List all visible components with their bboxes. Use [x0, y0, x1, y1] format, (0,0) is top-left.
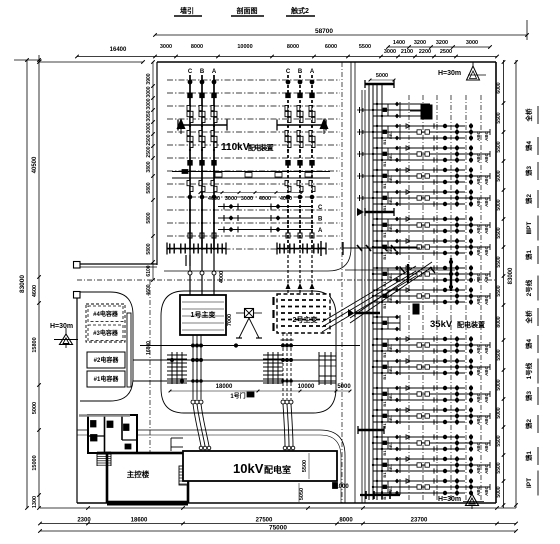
- dim 75000 bottom overall: [40, 530, 516, 532]
- svg-text:C: C: [286, 69, 291, 75]
- 110kV bay dims 4000 3000 3000 4000 4000: [200, 192, 302, 194]
- gate post square B: [74, 292, 81, 299]
- svg-text:ABC: ABC: [484, 485, 489, 495]
- svg-text:ABC: ABC: [484, 245, 489, 255]
- svg-text:馈4: 馈4: [524, 141, 533, 152]
- svg-text:ABC: ABC: [476, 414, 481, 424]
- equipment row y270 extension: [345, 269, 455, 271]
- svg-text:B: B: [298, 69, 303, 75]
- svg-text:主控楼: 主控楼: [127, 469, 150, 479]
- 35kV busbar top with 5000 dim: [370, 79, 394, 81]
- road bottom right loop: [320, 430, 345, 503]
- svg-text:3200: 3200: [414, 40, 426, 46]
- svg-text:35kV: 35kV: [430, 319, 453, 330]
- dim left inner chain x155: [152, 62, 154, 280]
- feeder comb cluster B: [267, 352, 269, 384]
- cable curves T2 to room: [283, 404, 285, 446]
- 110kV busbar group1: [178, 124, 227, 126]
- dim bottom chain line1: [40, 507, 516, 509]
- svg-text:3000: 3000: [146, 98, 152, 109]
- diagonal jumper lines T2 to 35kV bus: [322, 266, 416, 322]
- svg-text:ⅢPT: ⅢPT: [525, 222, 533, 235]
- svg-text:3200: 3200: [436, 40, 448, 46]
- svg-text:BB1: BB1: [388, 365, 393, 374]
- svg-text:B1: B1: [382, 352, 387, 358]
- svg-text:B1: B1: [382, 374, 387, 380]
- svg-text:1号门: 1号门: [230, 392, 245, 400]
- svg-text:3900: 3900: [146, 73, 152, 84]
- hall bottom wall reinforcement: [107, 504, 188, 506]
- svg-text:16400: 16400: [110, 47, 127, 53]
- gate post square A: [74, 262, 81, 269]
- 35kV bottom bus cluster: [360, 494, 400, 496]
- svg-text:3050: 3050: [146, 110, 152, 121]
- T1 LV cable leads: [192, 335, 194, 399]
- 10kV bus lines: [140, 345, 360, 347]
- T1 HV feeds from 110kV yard: [189, 250, 191, 295]
- svg-text:4000: 4000: [280, 196, 292, 202]
- svg-text:3000: 3000: [241, 196, 253, 202]
- svg-text:ⅠPT: ⅠPT: [525, 478, 533, 488]
- svg-text:8000: 8000: [287, 44, 299, 50]
- svg-text:5000: 5000: [496, 199, 502, 210]
- cable curves T1 to room: [193, 404, 201, 446]
- svg-text:A: A: [212, 69, 217, 75]
- svg-text:ABC: ABC: [484, 365, 489, 375]
- 110kV cable trench steps: [172, 171, 330, 173]
- 110kV conductor-row crossing dots: [189, 105, 191, 107]
- svg-text:配电装置: 配电装置: [457, 320, 485, 329]
- svg-text:墙引: 墙引: [180, 6, 194, 15]
- svg-text:15000: 15000: [32, 455, 38, 470]
- svg-text:2100: 2100: [401, 49, 413, 55]
- svg-text:B1: B1: [382, 472, 387, 478]
- svg-text:1000: 1000: [335, 484, 349, 490]
- svg-text:ABC: ABC: [476, 272, 481, 282]
- bus junction dots: [192, 344, 195, 347]
- 110kV busbar group2: [277, 124, 326, 126]
- svg-text:5500: 5500: [496, 227, 502, 238]
- svg-text:BB1: BB1: [388, 441, 393, 450]
- svg-text:5500: 5500: [496, 435, 502, 446]
- svg-text:ABC: ABC: [484, 174, 489, 184]
- svg-text:BB1: BB1: [388, 130, 393, 139]
- transformer T1 box: [180, 295, 226, 335]
- road centerline NS dash-dot x342: [341, 62, 343, 503]
- svg-text:ABC: ABC: [476, 392, 481, 402]
- 110kV group1 phase conductors: [189, 75, 191, 250]
- radiator V trestle: [239, 318, 249, 338]
- svg-text:6000: 6000: [325, 44, 337, 50]
- svg-text:4000: 4000: [219, 271, 225, 283]
- 35kV bay centerlines dash-dot: [408, 95, 410, 500]
- svg-text:H=30m: H=30m: [50, 323, 73, 330]
- svg-text:BB1: BB1: [388, 196, 393, 205]
- 110kV outgoing gantry row group1: [167, 248, 226, 250]
- svg-text:H=30m: H=30m: [438, 70, 461, 77]
- 110kV group2 phase conductors dashed: [287, 75, 289, 250]
- building door marks: [91, 421, 97, 428]
- svg-text:8000: 8000: [496, 316, 502, 327]
- svg-text:4600: 4600: [146, 284, 152, 295]
- svg-text:3000: 3000: [146, 122, 152, 133]
- svg-text:ABC: ABC: [484, 152, 489, 162]
- svg-text:83000: 83000: [508, 267, 514, 284]
- svg-text:B1: B1: [382, 254, 387, 260]
- svg-text:4000: 4000: [259, 196, 271, 202]
- 110kV bay dash-dot rows: [167, 79, 340, 81]
- svg-text:4000: 4000: [208, 196, 220, 202]
- svg-text:馈1: 馈1: [524, 451, 533, 462]
- svg-text:ABC: ABC: [476, 441, 481, 451]
- svg-text:ABC: ABC: [476, 365, 481, 375]
- svg-text:B1: B1: [382, 139, 387, 145]
- T2 LV cable leads dashed: [282, 333, 284, 399]
- svg-text:馈2: 馈2: [524, 419, 533, 430]
- svg-text:3000: 3000: [466, 40, 478, 46]
- svg-text:B: B: [318, 217, 323, 223]
- svg-text:A: A: [310, 69, 315, 75]
- svg-text:ABC: ABC: [476, 294, 481, 304]
- 35kV busbar mid: [365, 211, 394, 214]
- svg-text:3000: 3000: [146, 86, 152, 97]
- svg-text:7000: 7000: [227, 314, 233, 326]
- flange plate right: [320, 241, 322, 256]
- road edge NS x351 with corner: [164, 62, 351, 271]
- svg-text:5800: 5800: [146, 243, 152, 254]
- svg-text:#4电容器: #4电容器: [93, 310, 119, 318]
- svg-text:18600: 18600: [131, 518, 148, 524]
- equipment row y248 extension: [340, 247, 420, 249]
- dim bottom chain line2: [40, 523, 516, 525]
- T2 bushing bars left edge: [272, 297, 274, 305]
- road edge under 110kV y258: [164, 257, 330, 259]
- svg-text:5000: 5000: [496, 407, 502, 418]
- svg-text:58700: 58700: [315, 28, 333, 35]
- svg-text:5500: 5500: [496, 349, 502, 360]
- road edge NS x355: [354, 62, 356, 503]
- stairs upper: [97, 451, 111, 453]
- fence right: [495, 62, 497, 503]
- main building gray roof edge: [79, 414, 130, 416]
- svg-text:BB1: BB1: [388, 174, 393, 183]
- T1 cable end circles: [191, 400, 195, 404]
- svg-text:A: A: [318, 228, 323, 234]
- 35kV feeder bays: [373, 103, 430, 105]
- dim right chain x505: [503, 60, 505, 508]
- svg-text:2号线: 2号线: [524, 279, 533, 296]
- svg-text:5000: 5000: [376, 73, 388, 79]
- equipment row crossing left yard: [133, 359, 164, 361]
- svg-text:5000: 5000: [496, 486, 502, 497]
- svg-text:B1: B1: [382, 205, 387, 211]
- transformer yard road loop: [161, 291, 336, 413]
- svg-text:B1: B1: [382, 183, 387, 189]
- svg-text:18000: 18000: [216, 384, 233, 390]
- svg-text:B1: B1: [382, 401, 387, 407]
- svg-text:3000: 3000: [384, 49, 396, 55]
- svg-text:ABC: ABC: [484, 130, 489, 140]
- svg-text:75000: 75000: [269, 525, 287, 532]
- svg-text:馈2: 馈2: [524, 194, 533, 205]
- 35kV busbar mid2: [355, 312, 380, 315]
- 110kV jumper rows with CBA labels: [218, 206, 313, 208]
- svg-text:BB1: BB1: [388, 463, 393, 472]
- svg-text:配电室: 配电室: [264, 464, 291, 475]
- svg-text:ABC: ABC: [484, 441, 489, 451]
- svg-text:2号主变: 2号主变: [293, 315, 318, 324]
- svg-text:BB1: BB1: [388, 223, 393, 232]
- fence left upper: [156, 62, 158, 265]
- T2 HV feeds dashed from 110kV yard: [287, 250, 289, 294]
- radiator box with X: [245, 309, 254, 318]
- flange plate at road: [342, 242, 344, 255]
- svg-text:8000: 8000: [339, 518, 353, 524]
- svg-text:15800: 15800: [32, 337, 38, 352]
- svg-text:全桥: 全桥: [524, 108, 533, 123]
- svg-text:触式2: 触式2: [290, 6, 309, 15]
- svg-text:配电装置: 配电装置: [248, 143, 274, 152]
- dim 83000 left overall: [26, 60, 28, 508]
- svg-text:5500: 5500: [496, 256, 502, 267]
- svg-text:C: C: [188, 69, 193, 75]
- svg-text:5500: 5500: [496, 141, 502, 152]
- svg-text:全桥: 全桥: [524, 310, 533, 325]
- svg-text:B: B: [200, 69, 205, 75]
- svg-text:B1: B1: [382, 161, 387, 167]
- svg-text:10kV: 10kV: [233, 461, 264, 476]
- 35kV black cluster: [413, 304, 419, 314]
- capacitor yard road loop: [80, 292, 133, 401]
- svg-text:5500: 5500: [359, 44, 371, 50]
- capacitor banks #3#4 dashed outer: [86, 304, 125, 342]
- svg-text:ABC: ABC: [476, 223, 481, 233]
- svg-text:5050: 5050: [299, 488, 305, 500]
- svg-text:10000: 10000: [298, 384, 315, 390]
- svg-text:23700: 23700: [411, 518, 428, 524]
- svg-text:5500: 5500: [302, 460, 308, 472]
- svg-text:ABC: ABC: [484, 196, 489, 206]
- svg-text:83000: 83000: [19, 275, 26, 293]
- svg-text:5500: 5500: [496, 462, 502, 473]
- svg-text:6000: 6000: [496, 82, 502, 93]
- svg-text:1300: 1300: [32, 496, 38, 508]
- svg-text:3000: 3000: [160, 44, 172, 50]
- road lines above 10kV room: [77, 429, 320, 431]
- svg-text:5500: 5500: [496, 112, 502, 123]
- T2 cable end circles: [281, 400, 285, 404]
- svg-text:5800: 5800: [146, 212, 152, 223]
- stairs right in hall: [179, 466, 188, 485]
- svg-text:BB1: BB1: [388, 414, 393, 423]
- capacitor #2 box: [87, 352, 125, 368]
- svg-text:5500: 5500: [496, 285, 502, 296]
- 10kV room dims: [308, 453, 310, 479]
- svg-text:ABC: ABC: [484, 414, 489, 424]
- svg-text:110kV: 110kV: [221, 142, 250, 153]
- svg-text:ABC: ABC: [476, 152, 481, 162]
- svg-text:B1: B1: [382, 450, 387, 456]
- svg-text:2500: 2500: [146, 146, 152, 157]
- capacitor trench slim rect: [127, 313, 131, 387]
- 35kV thick bus stubs: [450, 258, 452, 291]
- capacitor #3 box: [88, 325, 123, 341]
- dim left chain 40500/4600/15800/5000/15000/1300: [38, 55, 40, 508]
- svg-text:剖面图: 剖面图: [237, 6, 258, 15]
- lightning rod arrow right: [320, 118, 329, 129]
- svg-text:B1: B1: [382, 232, 387, 238]
- svg-text:馈3: 馈3: [524, 166, 533, 177]
- gate jog line: [80, 263, 157, 265]
- 35kV bus vertical conductors: [368, 84, 370, 500]
- road centerline NS dash-dot x150: [149, 280, 151, 503]
- svg-text:ABC: ABC: [484, 223, 489, 233]
- 35kV yard fence lines x362 x365: [361, 90, 363, 503]
- fence left lower: [76, 298, 78, 503]
- 35kV busbar low: [358, 429, 384, 432]
- main building lower hall: [107, 453, 188, 502]
- dim 83000 right overall: [515, 60, 517, 508]
- svg-text:10000: 10000: [237, 44, 252, 50]
- svg-text:ABC: ABC: [476, 174, 481, 184]
- dim chain top right upper 1400 3200 3200 3000: [388, 46, 490, 48]
- dim 58700 overall top: [155, 34, 527, 36]
- svg-text:5000: 5000: [496, 170, 502, 181]
- svg-text:馈4: 馈4: [524, 339, 533, 350]
- svg-text:5800: 5800: [146, 182, 152, 193]
- svg-text:5000: 5000: [32, 402, 38, 414]
- capacitor #1 box: [87, 371, 125, 387]
- dim chain top main: [77, 56, 497, 58]
- ladder symbol right: [318, 352, 320, 385]
- svg-text:40500: 40500: [32, 156, 38, 173]
- svg-text:5000: 5000: [496, 379, 502, 390]
- svg-text:ABC: ABC: [476, 485, 481, 495]
- svg-text:ABC: ABC: [476, 463, 481, 473]
- dim 16400: [39, 61, 143, 63]
- svg-text:#2电容器: #2电容器: [94, 356, 120, 364]
- capacitor #4 box: [88, 306, 123, 322]
- yard dim line 18000/10000/5000: [170, 390, 350, 392]
- svg-text:B1: B1: [382, 303, 387, 309]
- gate posts near fence upper: [185, 255, 187, 266]
- svg-text:27500: 27500: [256, 518, 273, 524]
- svg-text:ABC: ABC: [476, 196, 481, 206]
- svg-text:5000: 5000: [337, 384, 351, 390]
- svg-text:H=30m: H=30m: [438, 496, 461, 503]
- 110kV outgoing gantry row group2: [277, 248, 326, 250]
- svg-text:馈3: 馈3: [524, 391, 533, 402]
- svg-text:#1电容器: #1电容器: [94, 375, 120, 383]
- svg-text:1400: 1400: [393, 40, 405, 46]
- svg-text:ABC: ABC: [476, 130, 481, 140]
- svg-text:BB1: BB1: [388, 152, 393, 161]
- feeder comb cluster A: [171, 352, 173, 384]
- svg-text:16800: 16800: [146, 341, 152, 355]
- svg-text:BB1: BB1: [388, 343, 393, 352]
- svg-text:ABC: ABC: [484, 294, 489, 304]
- svg-text:ABC: ABC: [484, 343, 489, 353]
- svg-text:1号线: 1号线: [524, 362, 533, 379]
- road centerline EW dash-dot: [77, 279, 496, 281]
- svg-text:3800: 3800: [146, 161, 152, 172]
- 35kV station transformer black box: [421, 105, 432, 119]
- svg-text:1号主变: 1号主变: [191, 310, 216, 319]
- svg-text:3000: 3000: [225, 196, 237, 202]
- svg-text:2500: 2500: [440, 49, 452, 55]
- 10kV switchgear room: [183, 451, 337, 481]
- 110kV equipment symbols on conductors: [188, 80, 192, 84]
- svg-text:B1: B1: [382, 423, 387, 429]
- svg-text:BB1: BB1: [388, 392, 393, 401]
- corridor lines to 10kV room: [171, 437, 183, 439]
- svg-text:C: C: [318, 205, 323, 211]
- svg-text:馈1: 馈1: [524, 250, 533, 261]
- transformer T2 dashed box: [277, 294, 330, 333]
- svg-text:8000: 8000: [191, 44, 203, 50]
- svg-text:2500: 2500: [146, 134, 152, 145]
- svg-text:ABC: ABC: [476, 343, 481, 353]
- transformer T1 inner lines: [182, 301, 224, 303]
- svg-text:ABC: ABC: [484, 392, 489, 402]
- main building upper block: [88, 415, 137, 453]
- fence bottom: [77, 502, 496, 504]
- svg-text:4600: 4600: [32, 285, 38, 297]
- svg-text:2200: 2200: [419, 49, 431, 55]
- svg-text:ABC: ABC: [484, 463, 489, 473]
- lightning rod arrow left: [177, 118, 186, 129]
- T2 bottom lead bars: [281, 339, 286, 341]
- svg-text:ABC: ABC: [476, 245, 481, 255]
- fence top: [157, 61, 496, 63]
- svg-text:ABC: ABC: [484, 272, 489, 282]
- svg-text:#3电容器: #3电容器: [93, 329, 119, 337]
- svg-text:2300: 2300: [77, 518, 91, 524]
